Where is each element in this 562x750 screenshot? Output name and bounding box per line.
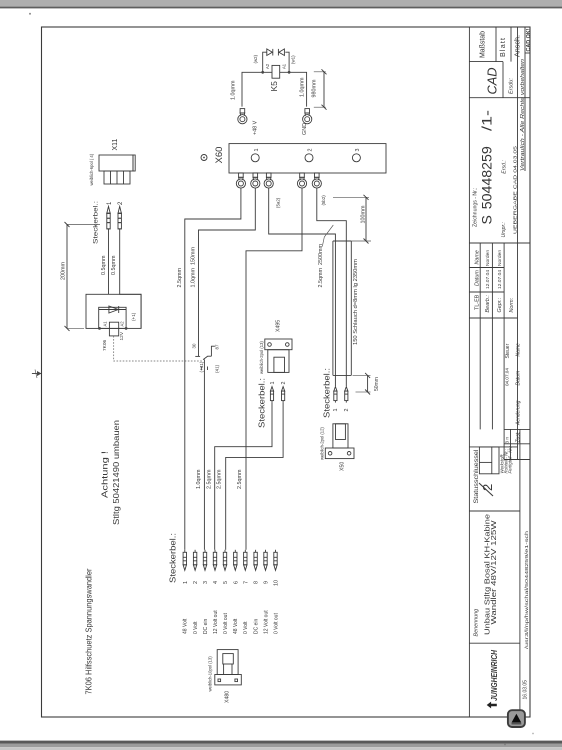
- svg-text:2: 2: [344, 409, 350, 412]
- label 2.5qmm 2500mm with leader: [318, 225, 333, 288]
- svg-text:12V: 12V: [119, 331, 125, 340]
- pin 10 X480: [274, 550, 280, 586]
- svg-text:UEBERGABE CAD 04.03.05: UEBERGABE CAD 04.03.05: [513, 145, 518, 234]
- svg-text:Datum: Datum: [515, 371, 521, 386]
- wire X495.1 to X480.4: [215, 403, 272, 550]
- svg-text:0 Volt out: 0 Volt out: [223, 613, 229, 634]
- scroll button overlay: [508, 710, 525, 727]
- svg-text:0 Volt: 0 Volt: [193, 621, 199, 634]
- relay K5 coil: [272, 65, 280, 78]
- svg-text:(w1): (w1): [291, 55, 296, 64]
- svg-text:04.07.04: 04.07.04: [505, 368, 510, 386]
- svg-text:2: 2: [480, 484, 495, 491]
- svg-text:16.03.05: 16.03.05: [523, 680, 529, 700]
- diode in 7K06: [99, 306, 126, 313]
- svg-text:A1: A1: [103, 321, 108, 327]
- svg-text:1: 1: [254, 149, 260, 152]
- wire X495.2 to X480.5: [226, 403, 283, 550]
- svg-text:Vertraulich - Alle Rechte vorb: Vertraulich - Alle Rechte vorbehalten: [520, 59, 526, 171]
- svg-text:Aenderung: Aenderung: [515, 400, 521, 426]
- wire lug2 to contact 30: [199, 188, 256, 356]
- svg-text:2.5qmm 2500mm: 2.5qmm 2500mm: [318, 244, 324, 288]
- svg-text:980mm: 980mm: [312, 79, 318, 97]
- pin 2 X480: [193, 550, 199, 584]
- svg-text:X50: X50: [339, 462, 345, 471]
- svg-text:30: 30: [192, 343, 197, 348]
- svg-text:50448259: 50448259: [478, 146, 494, 209]
- crimp marks on wire 41: [200, 367, 202, 371]
- svg-text:Achtung !: Achtung !: [101, 451, 110, 498]
- dimension 100mm: [333, 195, 371, 244]
- svg-text:48 Volt: 48 Volt: [233, 618, 239, 634]
- svg-text:Bearb.:: Bearb.:: [485, 295, 491, 313]
- connector X480: [215, 650, 242, 685]
- pin 4 X480: [213, 550, 219, 584]
- svg-text:1.0qmm: 1.0qmm: [231, 80, 237, 100]
- svg-text:87: 87: [214, 344, 219, 349]
- svg-text:Benennung: Benennung: [474, 609, 480, 637]
- connector X495: [265, 339, 292, 372]
- svg-text:(w2): (w2): [253, 54, 258, 63]
- pin 2 X11: [118, 201, 124, 232]
- svg-text:2.5qmm: 2.5qmm: [207, 469, 213, 489]
- svg-text:/1-: /1-: [478, 110, 494, 131]
- wire +48V to K5: [242, 72, 272, 106]
- svg-text:Norden: Norden: [497, 250, 503, 266]
- hose 150 Schlauch: [333, 241, 351, 375]
- svg-text:9: 9: [264, 581, 270, 584]
- node A1: [98, 327, 101, 330]
- lug GND: [303, 109, 312, 124]
- svg-text:Norden: Norden: [485, 250, 491, 266]
- pin labels X480: [183, 610, 280, 634]
- svg-text:Steckerbel.:: Steckerbel.:: [168, 533, 178, 583]
- svg-text:CAD: CAD: [485, 68, 500, 95]
- svg-text:A2: A2: [120, 321, 125, 327]
- speck: [29, 13, 31, 15]
- wire lug1 to X480.1: [185, 188, 241, 550]
- suppressor diode branch: [263, 49, 289, 72]
- connector X11: [89, 138, 135, 185]
- svg-text:2: 2: [193, 581, 199, 584]
- svg-text:(41): (41): [215, 364, 220, 373]
- top gray browser strip: [0, 0, 562, 7]
- svg-text:12 Volt out: 12 Volt out: [263, 610, 269, 634]
- svg-text:(+1): (+1): [131, 312, 136, 321]
- svg-text:48 Volt: 48 Volt: [183, 618, 189, 634]
- svg-text:200mm: 200mm: [61, 262, 67, 280]
- Jungheinrich logo: [487, 649, 499, 708]
- svg-text:X60: X60: [214, 147, 225, 164]
- svg-text:150 Schlauch d=8mm lg 2350mm: 150 Schlauch d=8mm lg 2350mm: [353, 258, 359, 345]
- wire X11.1 to 7K06 box: [108, 232, 110, 294]
- svg-text:Urspr.:: Urspr.:: [501, 222, 507, 238]
- svg-text:0.5qmm: 0.5qmm: [101, 255, 107, 275]
- svg-text:TL-EB: TL-EB: [474, 294, 480, 310]
- svg-text:1.0qmm: 1.0qmm: [196, 469, 202, 489]
- svg-text:X11: X11: [112, 138, 119, 150]
- svg-text:Wandler 48V/12V 125W: Wandler 48V/12V 125W: [489, 520, 498, 624]
- svg-text:2.5qmm: 2.5qmm: [177, 268, 183, 288]
- dust speck: [532, 733, 534, 735]
- lug X60.1c: [264, 173, 273, 188]
- pin 2 X495: [281, 382, 287, 403]
- svg-text:DC ein: DC ein: [254, 618, 260, 634]
- svg-text:(5b2): (5b2): [321, 195, 326, 206]
- lug +48V: [238, 109, 247, 124]
- svg-text:12 Volt out: 12 Volt out: [213, 610, 219, 634]
- terminal strip X60: [229, 144, 386, 173]
- svg-text:1: 1: [333, 409, 339, 412]
- wire X11.2 to 7K06 box: [120, 232, 141, 328]
- svg-text:Zust.: Zust.: [515, 431, 521, 443]
- dimension 980mm: [312, 69, 327, 109]
- svg-text:1: 1: [270, 382, 276, 385]
- pin 3 X480: [203, 550, 209, 584]
- svg-text:weiblich-6pol ( 4): weiblich-6pol ( 4): [89, 153, 94, 185]
- svg-text:1: 1: [183, 581, 189, 584]
- relay 7K06 box: [86, 294, 141, 328]
- svg-text:3 n: 3 n: [505, 437, 510, 444]
- lug X60.2b: [312, 173, 321, 188]
- svg-text:A1: A1: [281, 63, 286, 69]
- pin 1 X11: [107, 201, 113, 232]
- svg-text:5: 5: [223, 581, 229, 584]
- wire lug3 to X50.1: [269, 188, 336, 386]
- pin 9 X480: [264, 550, 270, 584]
- pin 7 X480: [243, 550, 249, 584]
- svg-text:10: 10: [274, 580, 280, 586]
- svg-text:S: S: [478, 215, 494, 224]
- svg-text:0 Volt out: 0 Volt out: [273, 613, 279, 634]
- svg-text:Name: Name: [474, 250, 480, 264]
- wire contact to X480.3: [203, 360, 205, 550]
- pin 1 X50: [333, 387, 339, 412]
- svg-text:Fertigteil - Nr.:: Fertigteil - Nr.:: [508, 445, 513, 473]
- svg-text:Steckerbel.:: Steckerbel.:: [257, 378, 267, 428]
- wire K5 to GND lug: [280, 72, 307, 106]
- svg-text:K5: K5: [269, 81, 279, 92]
- svg-text:Steckerbel.:: Steckerbel.:: [94, 201, 100, 244]
- datum symbol: [201, 155, 207, 161]
- svg-text:JUNGHEINRICH: JUNGHEINRICH: [489, 649, 499, 701]
- svg-text:GND: GND: [302, 123, 308, 135]
- dimension 200mm: [61, 222, 100, 331]
- connector X50: [325, 424, 354, 459]
- svg-text:weiblich-2pol (13): weiblich-2pol (13): [259, 341, 264, 374]
- pin 6 X480: [233, 550, 239, 584]
- node w2: [261, 71, 264, 74]
- svg-text:1.0qmm 150mm: 1.0qmm 150mm: [191, 247, 197, 288]
- pin 1 X495: [270, 382, 276, 403]
- svg-text:7K06: 7K06: [102, 339, 108, 351]
- svg-text:weiblich-10pol (13): weiblich-10pol (13): [208, 656, 213, 692]
- wire lug4 to X480.7: [246, 188, 302, 550]
- svg-text:2: 2: [308, 149, 314, 152]
- svg-text:3: 3: [355, 149, 361, 152]
- pin 2 X50: [344, 387, 350, 412]
- svg-text:Ersd.:: Ersd.:: [502, 160, 508, 174]
- bottom gray strips: [0, 741, 562, 744]
- svg-text:0.5qmm: 0.5qmm: [111, 255, 117, 275]
- svg-text:Norm:: Norm:: [509, 297, 515, 312]
- svg-text:Ersdu:: Ersdu:: [509, 78, 515, 94]
- svg-text:Stltg 50421490 umbauen: Stltg 50421490 umbauen: [112, 420, 121, 525]
- svg-text:Steckerbel.:: Steckerbel.:: [322, 368, 332, 418]
- svg-text:Steuer: Steuer: [505, 343, 511, 358]
- svg-text:(5a2): (5a2): [276, 197, 281, 208]
- svg-text:Maßstab: Maßstab: [478, 31, 487, 58]
- pin 5 X480: [223, 550, 229, 584]
- svg-text:12.07.04: 12.07.04: [485, 270, 491, 289]
- svg-text:0 Volt: 0 Volt: [243, 621, 249, 634]
- svg-text:4: 4: [213, 581, 219, 584]
- svg-text:7K06 Hilfsschuetz Spannungswan: 7K06 Hilfsschuetz Spannungswandler: [85, 568, 94, 694]
- svg-text:X495: X495: [276, 320, 282, 332]
- lug X60.1b: [251, 173, 260, 188]
- node A2: [125, 327, 128, 330]
- svg-text:7: 7: [243, 581, 249, 584]
- svg-text:2: 2: [281, 382, 287, 385]
- svg-text:2.5qmm: 2.5qmm: [237, 469, 243, 489]
- sheet center arrow: [32, 370, 42, 379]
- svg-text:+48 V: +48 V: [253, 120, 259, 135]
- svg-text:X480: X480: [225, 691, 231, 703]
- dashed actuator link: [114, 336, 203, 361]
- coil 7K06 12V: [109, 322, 118, 336]
- svg-text:1.0qmm: 1.0qmm: [300, 77, 306, 97]
- svg-text:Gepr.:: Gepr.:: [497, 297, 503, 312]
- dimension 50mm: [353, 373, 381, 395]
- lug X60.2a: [297, 173, 306, 188]
- svg-text:2.5qmm: 2.5qmm: [217, 469, 223, 489]
- title block grid: [469, 27, 530, 717]
- relay contact 30/87: [195, 346, 215, 359]
- svg-text:100mm: 100mm: [361, 205, 367, 223]
- wire lug5 to X50.2: [317, 188, 347, 386]
- svg-text:8: 8: [254, 581, 260, 584]
- svg-text:DC ein: DC ein: [203, 618, 209, 634]
- lug X60.1a: [236, 173, 245, 188]
- node w1: [288, 71, 291, 74]
- svg-text:Blatt: Blatt: [498, 38, 507, 57]
- svg-text:/usr3/l/np/hw/schal/50448259/e: /usr3/l/np/hw/schal/50448259/e1-sch: [524, 530, 529, 649]
- svg-text:Ansch.: Ansch.: [512, 35, 521, 57]
- svg-text:3: 3: [203, 581, 209, 584]
- title block border: [468, 27, 470, 717]
- svg-text:weiblich-2pol (12): weiblich-2pol (12): [320, 427, 325, 460]
- svg-text:A2: A2: [265, 63, 270, 69]
- svg-text:6: 6: [233, 581, 239, 584]
- svg-text:12.07.04: 12.07.04: [497, 270, 503, 289]
- pin 8 X480: [254, 550, 260, 584]
- svg-text:CAD OK!: CAD OK!: [526, 28, 532, 51]
- pin 1 X480: [183, 550, 189, 584]
- svg-text:Name: Name: [515, 343, 521, 357]
- svg-text:Datum: Datum: [474, 270, 480, 286]
- svg-text:50mm: 50mm: [374, 377, 380, 391]
